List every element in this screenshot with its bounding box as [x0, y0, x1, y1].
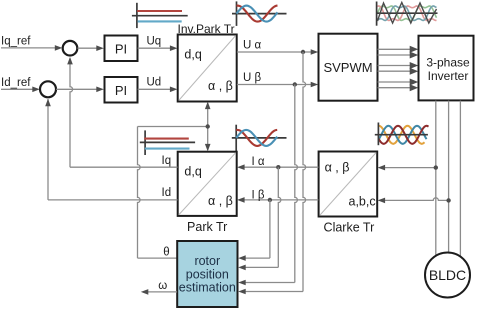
icon SVPWM modulation waveforms (top right) [376, 2, 437, 26]
svg-text:Inverter: Inverter [428, 69, 469, 83]
svg-text:Iq: Iq [162, 155, 172, 167]
icon alpha-beta voltage sine waves (top) [232, 1, 287, 26]
svg-text:PI: PI [115, 83, 127, 98]
junction dot U-alpha [301, 50, 305, 54]
svg-text:3-phase: 3-phase [426, 56, 470, 70]
wire Uq: PI1 to Inv.Park [138, 47, 172, 49]
wire Id feedback: Park to sum2 [48, 199, 178, 201]
svg-text:ω: ω [158, 280, 167, 292]
wires SVPWM to inverter (PWM signal pairs) [378, 48, 410, 50]
wire theta net: rotor estimator to Park and Inv.Park [138, 257, 178, 259]
svg-text:α , β: α , β [208, 194, 233, 208]
block rotor position estimation [177, 241, 237, 307]
wire I-beta: Clarke to Park [243, 199, 318, 201]
svg-text:U β: U β [243, 72, 262, 84]
wire Ud: PI2 to Inv.Park [138, 88, 172, 90]
wire I-beta drop to estimator input 1 [269, 200, 271, 258]
svg-text:Ud: Ud [147, 76, 162, 88]
svg-text:SVPWM: SVPWM [323, 60, 372, 75]
svg-text:estimation: estimation [179, 281, 236, 295]
icon dq currents plot (middle) [140, 130, 195, 155]
wire U-alpha: Inv.Park to SVPWM [237, 51, 313, 53]
wire sum1 to PI1 [78, 47, 98, 49]
junction dot I-alpha [276, 165, 280, 169]
svg-text:I β: I β [252, 189, 265, 201]
svg-text:BLDC: BLDC [429, 267, 466, 283]
svg-text:Id: Id [162, 187, 172, 199]
block SVPWM [319, 34, 378, 101]
icon 3-phase current sine waves [375, 123, 429, 146]
svg-text:PI: PI [115, 41, 127, 56]
wire Iq_ref input [1, 47, 56, 49]
svg-text:I α: I α [252, 156, 265, 168]
wire Ia tap to Clarke [384, 167, 436, 169]
junction dot Ia [434, 165, 438, 169]
junction dot theta [206, 124, 210, 128]
summing junction 2 [40, 81, 56, 97]
wire U-beta: Inv.Park to SVPWM [237, 84, 313, 86]
svg-text:Park Tr: Park Tr [187, 220, 227, 234]
junction dot U-beta [293, 82, 297, 86]
svg-text:Clarke Tr: Clarke Tr [324, 221, 375, 235]
svg-text:Iq_ref: Iq_ref [1, 36, 31, 48]
svg-text:Uq: Uq [147, 35, 162, 47]
svg-text:Id_ref: Id_ref [1, 77, 31, 89]
wire omega output [148, 291, 177, 293]
svg-text:d,q: d,q [184, 47, 201, 61]
svg-text:a,b,c: a,b,c [349, 194, 376, 208]
junction dot Ib [446, 198, 450, 202]
junction dot I-beta [268, 198, 272, 202]
block 3-phase Inverter [419, 36, 474, 101]
block Inv.Park transform [178, 35, 237, 102]
wire inverter phase a [435, 101, 437, 256]
svg-text:U α: U α [243, 39, 262, 51]
wire Ib tap to Clarke [384, 198, 449, 201]
wire inverter phase c [459, 101, 461, 257]
wire inverter phase b [448, 101, 450, 253]
wire U-alpha drop to estimator input 4 [303, 52, 306, 292]
svg-text:α , β: α , β [208, 79, 233, 93]
svg-text:position: position [186, 267, 229, 281]
svg-text:rotor: rotor [194, 254, 220, 268]
wire U-beta drop to estimator input 3 [295, 85, 298, 283]
PI controller 1 [105, 36, 138, 62]
icon alpha-beta current sine waves (middle) [232, 125, 287, 153]
wire sum2 to PI2 [56, 88, 97, 90]
svg-text:α , β: α , β [325, 160, 350, 174]
svg-text:d,q: d,q [184, 164, 201, 178]
wire I-alpha drop to estimator input 2 [278, 167, 281, 267]
wire Iq feedback: Park to sum1 [70, 166, 178, 168]
svg-text:θ: θ [163, 246, 169, 258]
block Clarke transform [319, 152, 378, 217]
wire I-alpha: Clarke to Park [243, 166, 318, 168]
summing junction 1 [63, 41, 78, 56]
icon dq voltages plot (top) [132, 3, 188, 28]
motor BLDC [425, 253, 470, 298]
wire Id_ref input [1, 88, 34, 90]
block Park transform [178, 152, 237, 216]
PI controller 2 [105, 77, 138, 103]
